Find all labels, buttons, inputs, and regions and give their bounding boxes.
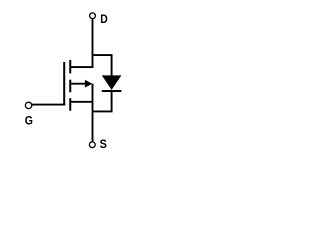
wire diode bottom branch — [93, 92, 112, 111]
wire gate — [32, 104, 65, 106]
diode D1 body diode triangle — [102, 75, 122, 90]
diode D1 cathode bar — [102, 90, 122, 92]
transistor Q1 channel bar body plate — [69, 80, 71, 93]
transistor Q1 gate bar — [63, 62, 65, 106]
svg-text:G: G — [25, 114, 33, 128]
transistor Q1 channel bar drain plate — [69, 60, 71, 73]
svg-text:S: S — [100, 137, 107, 151]
wire source stub — [70, 101, 92, 103]
wire source vertical — [92, 84, 94, 142]
wire body stub — [71, 83, 86, 85]
wire diode top branch — [93, 55, 112, 76]
transistor Q1 channel bar source plate — [69, 98, 71, 111]
terminal S circle — [89, 142, 95, 148]
terminal D circle — [90, 13, 96, 19]
transistor Q1 body arrow — [85, 80, 92, 88]
terminal G circle — [25, 102, 31, 108]
wire drain vertical from D terminal — [70, 19, 92, 67]
svg-text:D: D — [100, 12, 108, 26]
